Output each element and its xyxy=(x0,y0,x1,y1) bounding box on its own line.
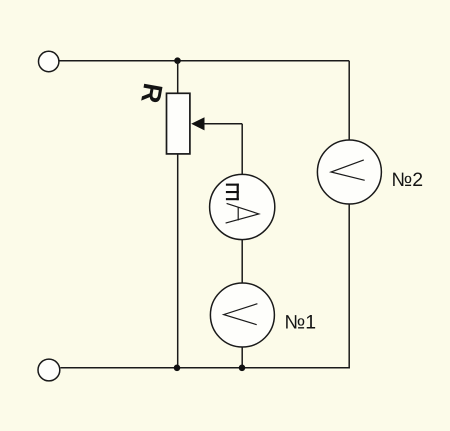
milliammeter A mark (rotated) xyxy=(226,203,259,223)
node junction top xyxy=(174,57,181,64)
wire wiper down to mA meter xyxy=(241,124,243,175)
voltmeter No2 V mark (rotated) xyxy=(331,160,365,180)
terminal top-left xyxy=(39,51,59,71)
wire junction to resistor top xyxy=(177,61,179,94)
milliammeter mA body xyxy=(210,174,275,239)
node junction bottom left xyxy=(174,365,181,372)
wire resistor bottom to bottom rail xyxy=(177,154,179,368)
wire top rail down to voltmeter 2 xyxy=(348,61,350,141)
wiper arrowhead xyxy=(191,117,204,130)
resistor R body xyxy=(167,93,190,154)
wire bottom horizontal xyxy=(60,367,350,369)
voltmeter No1 body xyxy=(210,283,274,347)
svg-text:№2: №2 xyxy=(391,169,423,191)
voltmeter No1 V mark (rotated) xyxy=(224,304,258,325)
svg-text:№1: №1 xyxy=(284,311,316,333)
wire voltmeter 1 to bottom rail xyxy=(241,347,243,368)
node junction bottom middle xyxy=(239,365,246,372)
wire voltmeter 2 to bottom rail xyxy=(348,204,350,369)
wire mA to voltmeter 1 xyxy=(241,240,243,284)
terminal bottom-left xyxy=(38,359,60,381)
milliammeter m glyph (rotated) xyxy=(226,184,239,201)
voltmeter No2 body xyxy=(317,140,381,204)
wire top horizontal xyxy=(59,60,349,62)
wire wiper horizontal xyxy=(204,123,242,125)
